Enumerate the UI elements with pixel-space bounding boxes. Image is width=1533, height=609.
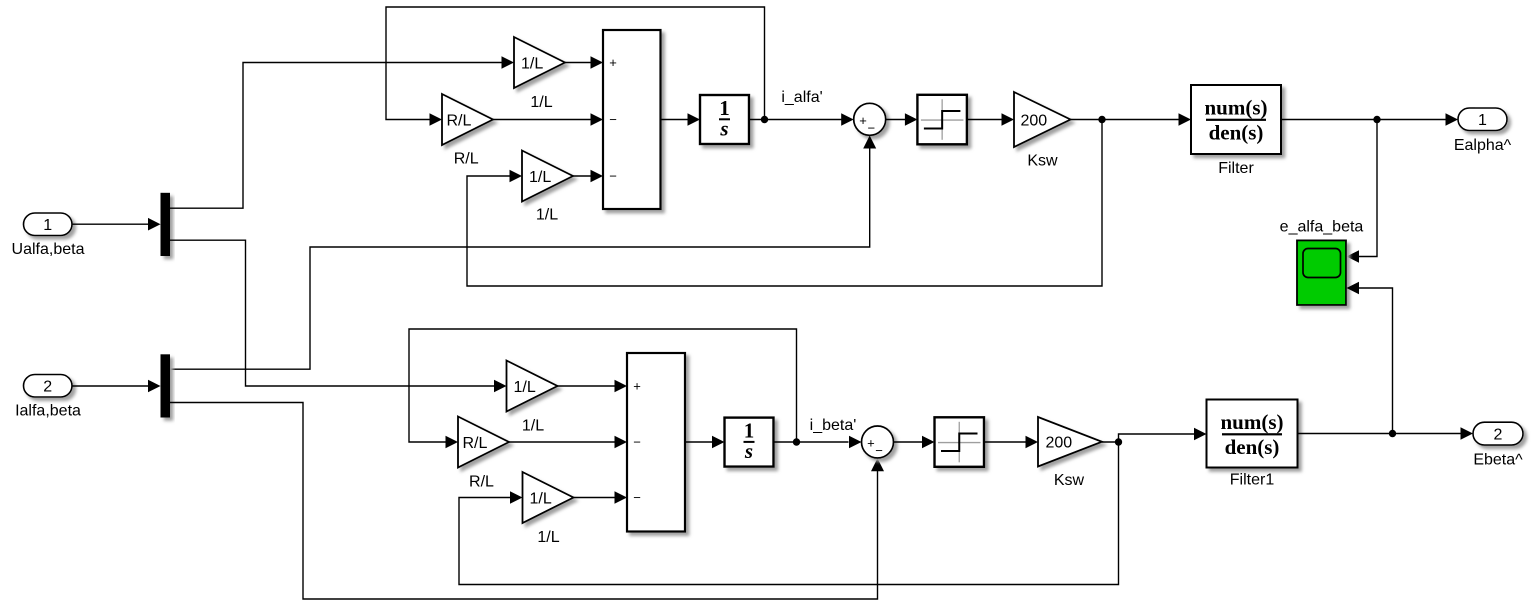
gain 1/L (top row3) — [522, 151, 573, 202]
demux Demux1 — [161, 193, 171, 256]
wire demux1 out2 (Ubeta) to bottom gain 1/L — [170, 240, 495, 386]
svg-text:i_beta': i_beta' — [810, 417, 857, 434]
arrowhead into sum-circle left (bottom) — [849, 436, 862, 449]
wire junction to Filter1 — [1119, 434, 1195, 442]
sum block Sum1 (bottom) — [627, 353, 685, 532]
svg-text:−: − — [609, 169, 617, 184]
wire Filter to outport 1 — [1281, 119, 1446, 121]
svg-text:1/L: 1/L — [530, 490, 552, 507]
wire Filter junction to scope input 1 — [1359, 120, 1377, 257]
svg-text:1/L: 1/L — [514, 379, 536, 396]
wire demux2 out2 (Ibeta) to sum-circle (bottom) — [170, 403, 878, 600]
svg-text:num(s): num(s) — [1220, 410, 1283, 434]
arrowhead into saturation (bottom) — [922, 436, 935, 449]
gain R/L (top row2) — [442, 94, 493, 145]
arrowhead into sum row3 (bottom) — [615, 491, 628, 504]
wire feedback integrator to R/L (bottom) — [409, 329, 797, 442]
svg-text:Ualfa,beta: Ualfa,beta — [12, 241, 85, 258]
gain 1/L (bottom row1) — [507, 361, 558, 412]
sum-circle (bottom) — [862, 426, 894, 458]
svg-text:−: − — [633, 435, 641, 450]
junction after gain 200 (bottom) — [1115, 438, 1122, 445]
wire gain 200 to junction (bottom) — [1102, 441, 1119, 443]
svg-text:R/L: R/L — [454, 151, 479, 168]
svg-text:200: 200 — [1021, 112, 1048, 129]
transfer function Filter1 — [1207, 400, 1298, 468]
arrowhead into integrator (bottom) — [712, 436, 725, 449]
inport 2 Ialfa,beta — [24, 375, 73, 398]
svg-text:Filter1: Filter1 — [1230, 472, 1275, 489]
outport 1 Ealpha — [1458, 108, 1507, 131]
gain R/L (bottom row2) — [458, 417, 509, 468]
gain 1/L (top row1) — [514, 37, 565, 88]
outport 2 Ebeta — [1473, 422, 1523, 445]
wire Filter1 to outport 2 — [1298, 433, 1461, 435]
arrowhead into sum row2 (bottom) — [615, 436, 628, 449]
junction after Filter1 — [1389, 430, 1396, 437]
wire feedback integrator to R/L (top) — [386, 7, 765, 120]
arrowhead into Filter1 — [1194, 428, 1207, 441]
wire sum to integrator (top) — [661, 119, 689, 121]
arrowhead into scope input 2 — [1347, 282, 1360, 295]
svg-text:num(s): num(s) — [1204, 96, 1267, 120]
wire gain R/L to sum (bottom row2) — [509, 441, 615, 443]
arrowhead into scope input 1 — [1347, 250, 1360, 263]
arrowhead into sum row1 (bottom) — [615, 380, 628, 393]
integrator 1/s (top) — [700, 95, 749, 144]
sum block Sum (top) — [603, 30, 661, 209]
arrowhead into outport 2 — [1461, 427, 1474, 440]
gain 1/L (bottom row3) — [523, 472, 574, 523]
wire EMF feedback to gain 1/L row3 (top) — [467, 120, 1102, 287]
wire sum-circle to saturation (top) — [886, 119, 905, 121]
saturation relay block (top) — [917, 95, 967, 145]
svg-text:+: + — [867, 436, 875, 451]
wire sum-circle to saturation (bottom) — [894, 441, 923, 443]
arrowhead into gain 1/L top — [502, 56, 515, 69]
svg-text:Ealpha^: Ealpha^ — [1454, 137, 1512, 154]
svg-text:den(s): den(s) — [1209, 121, 1264, 145]
arrowhead into bottom gain 1/L — [494, 380, 507, 393]
integrator 1/s (bottom) — [725, 418, 774, 467]
svg-text:−: − — [633, 490, 641, 505]
svg-text:R/L: R/L — [469, 474, 494, 491]
arrowhead into outport 1 — [1446, 113, 1459, 126]
junction after Filter — [1373, 116, 1380, 123]
svg-text:−: − — [875, 443, 883, 458]
svg-text:i_alfa': i_alfa' — [781, 89, 822, 106]
svg-text:2: 2 — [43, 378, 52, 395]
svg-text:1: 1 — [1478, 112, 1487, 129]
svg-text:1/L: 1/L — [529, 169, 551, 186]
wire EMF feedback to gain 1/L row3 (bottom) — [459, 442, 1119, 585]
arrowhead into demux2 — [148, 380, 161, 393]
wire gain 1/L to sum (bottom row1) — [558, 385, 616, 387]
saturation relay block (bottom) — [935, 417, 985, 467]
svg-text:+: + — [859, 113, 867, 128]
svg-text:Ksw: Ksw — [1027, 153, 1058, 170]
wire inport1 to demux1 — [72, 223, 149, 225]
wire Filter1 junction to scope input 2 — [1359, 288, 1393, 434]
wire saturation to gain 200 (top) — [967, 119, 1002, 121]
sum-circle (top) — [854, 103, 886, 135]
gain 200 Ksw (bottom) — [1038, 417, 1102, 467]
arrowhead EMF feedback into 1/L row3 (bottom) — [510, 491, 523, 504]
arrowhead into sum-circle left (top) — [841, 113, 854, 126]
svg-text:1/L: 1/L — [536, 207, 558, 224]
svg-text:s: s — [744, 439, 753, 463]
svg-text:den(s): den(s) — [1225, 435, 1280, 459]
wire demux2 out1 (Ialfa) to sum-circle (top) — [170, 149, 870, 370]
wire gain R/L to sum (top row2) — [493, 119, 591, 121]
wire gain 1/L to sum (top row1) — [565, 62, 591, 64]
demux Demux2 — [161, 354, 171, 417]
scope e_alfa_beta — [1297, 240, 1346, 305]
arrowhead into sum row3 (top) — [591, 170, 604, 183]
svg-text:1: 1 — [43, 217, 52, 234]
svg-text:1/L: 1/L — [522, 418, 544, 435]
svg-text:1/L: 1/L — [537, 529, 559, 546]
arrowhead into sum row2 (top) — [591, 113, 604, 126]
wire gain 1/L row3 to sum (bottom) — [574, 497, 616, 499]
svg-text:s: s — [719, 117, 728, 141]
inport 1 Ualfa,beta — [24, 213, 73, 236]
arrowhead into saturation (top) — [905, 113, 918, 126]
svg-text:200: 200 — [1046, 435, 1073, 452]
wire inport2 to demux2 — [72, 385, 149, 387]
transfer function Filter — [1191, 85, 1281, 154]
wire saturation to gain 200 (bottom) — [984, 441, 1026, 443]
svg-text:e_alfa_beta: e_alfa_beta — [1280, 219, 1364, 236]
svg-text:Filter: Filter — [1218, 160, 1254, 177]
svg-text:R/L: R/L — [447, 112, 472, 129]
svg-text:+: + — [633, 379, 641, 394]
arrowhead into integrator (top) — [688, 113, 701, 126]
arrowhead into sum row1 (top) — [591, 56, 604, 69]
svg-text:Ialfa,beta: Ialfa,beta — [15, 403, 81, 420]
gain 200 Ksw (top) — [1014, 92, 1071, 147]
wire gain 200 to Filter (top) — [1071, 119, 1180, 121]
arrowhead EMF feedback into 1/L row3 (top) — [510, 170, 523, 183]
wire gain 1/L row3 to sum (top) — [573, 175, 591, 177]
wire integrator to sum-circle (bottom) — [774, 441, 849, 443]
wire sum to integrator (bottom) — [685, 441, 713, 443]
junction i_beta (bottom) — [793, 438, 800, 445]
svg-text:+: + — [609, 55, 617, 70]
svg-text:−: − — [868, 121, 876, 136]
arrowhead into Filter — [1179, 113, 1192, 126]
svg-text:−: − — [609, 112, 617, 127]
svg-text:Ebeta^: Ebeta^ — [1473, 452, 1523, 469]
arrowhead into gain R/L (top) — [430, 113, 443, 126]
wire demux1 out1 (Ualfa) to gain 1/L — [170, 63, 502, 209]
junction after gain 200 (top) — [1098, 116, 1105, 123]
wire integrator to sum-circle (top) — [749, 119, 842, 121]
svg-text:Ksw: Ksw — [1054, 472, 1085, 489]
svg-text:1/L: 1/L — [521, 55, 543, 72]
arrowhead into sum-circle bottom (top) — [863, 136, 876, 149]
arrowhead into sum-circle bottom (bottom) — [871, 458, 884, 471]
arrowhead into gain 200 (top) — [1002, 113, 1015, 126]
svg-text:R/L: R/L — [463, 435, 488, 452]
arrowhead into gain R/L (bottom) — [446, 436, 459, 449]
arrowhead into gain 200 (bottom) — [1026, 436, 1039, 449]
arrowhead into demux1 — [148, 218, 161, 231]
junction i_alfa (top) — [761, 116, 768, 123]
svg-text:2: 2 — [1494, 426, 1503, 443]
svg-text:1/L: 1/L — [530, 94, 552, 111]
